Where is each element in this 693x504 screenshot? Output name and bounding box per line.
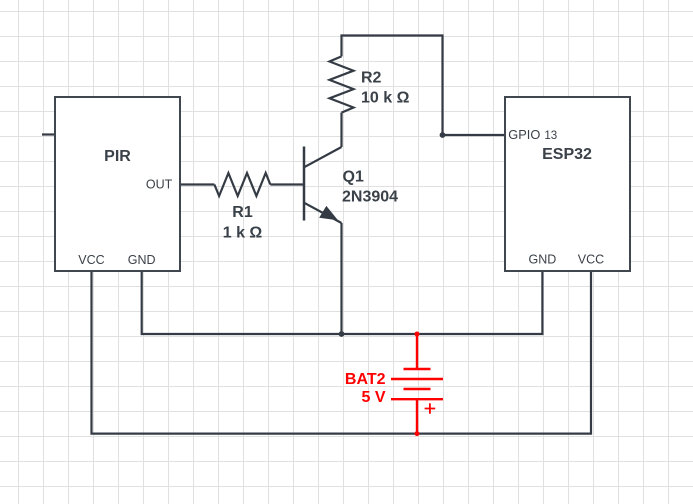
wire: GND net (PIR GND - rail - ESP32 GND): [142, 271, 543, 334]
svg-text:2N3904: 2N3904: [342, 189, 398, 206]
svg-text:GND: GND: [529, 253, 557, 267]
wire: Q1 emitter to GND rail: [340, 223, 342, 334]
component box ESP32: [505, 97, 630, 271]
svg-text:PIR: PIR: [104, 148, 131, 165]
component box PIR: [55, 97, 180, 271]
svg-text:R2: R2: [361, 69, 382, 86]
node: red junction top of battery: [415, 332, 420, 337]
svg-text:GND: GND: [128, 253, 156, 267]
node: junction dot at GPIO wire: [440, 132, 446, 138]
node: junction dot emitter/GND rail: [339, 331, 345, 337]
svg-text:VCC: VCC: [78, 253, 104, 267]
battery BAT2: [391, 334, 443, 434]
resistor R1: [214, 173, 270, 196]
wire: R1 to Q1 base: [270, 183, 304, 185]
svg-text:OUT: OUT: [146, 178, 173, 192]
Q1 emitter arrow: [320, 207, 337, 220]
resistor R2: [330, 56, 354, 112]
svg-text:BAT2: BAT2: [345, 371, 386, 388]
svg-text:10 k Ω: 10 k Ω: [361, 89, 410, 106]
wire: unconnected stub on PIR left pin: [42, 133, 55, 135]
node: red junction bottom of battery: [415, 431, 420, 436]
svg-text:R1: R1: [232, 204, 253, 221]
transistor Q1: [304, 147, 342, 224]
wire: PIR OUT pin to R1: [180, 183, 214, 185]
svg-text:5 V: 5 V: [361, 389, 385, 406]
svg-text:GPIO 13: GPIO 13: [508, 127, 557, 142]
wire: R2 bottom to Q1 collector: [340, 113, 342, 147]
wire: VCC net (PIR VCC - rail - ESP32 VCC): [92, 271, 592, 434]
svg-text:Q1: Q1: [343, 169, 364, 186]
wire: junction to ESP32 GPIO13 pin: [443, 134, 506, 136]
wire: top rail from R2 top to collector column: [342, 36, 443, 136]
svg-text:ESP32: ESP32: [542, 146, 592, 163]
svg-text:1 k Ω: 1 k Ω: [223, 225, 263, 242]
svg-text:VCC: VCC: [578, 253, 604, 267]
